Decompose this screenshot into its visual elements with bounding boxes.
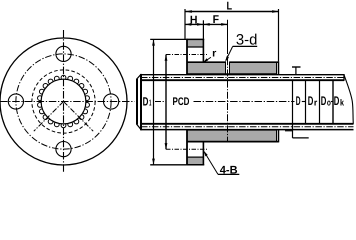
hidden sleeve bore circle (dashed) bbox=[32, 70, 95, 133]
bolt hole right bbox=[104, 94, 119, 109]
shaft end chamfer bottom bbox=[137, 124, 141, 129]
bolt hole top bbox=[56, 46, 71, 61]
oil hole right edge bbox=[229, 62, 231, 75]
gray section right border bottom bbox=[276, 130, 278, 142]
bottom ball track centerline bbox=[141, 126, 354, 128]
F arrow right bbox=[221, 23, 227, 26]
centerline dash between Do and Dk bbox=[331, 101, 333, 103]
top ball track centerline bbox=[141, 77, 344, 79]
sleeve outer bottom edge bbox=[187, 141, 279, 143]
dimension L line bbox=[186, 11, 279, 13]
svg-text:D: D bbox=[308, 94, 314, 108]
gray section right border top bbox=[276, 62, 278, 74]
dimension D1 vertical line bbox=[153, 39, 155, 164]
H arrow right bbox=[197, 23, 203, 26]
horizontal centerline front view bbox=[0, 101, 135, 103]
centerline dash between D and Dr bbox=[302, 101, 305, 103]
bolt hole PCD circle (dash-dot) bbox=[16, 54, 111, 149]
PCD arrow top bbox=[165, 55, 168, 61]
svg-text:D: D bbox=[334, 94, 340, 108]
dimension PCD vertical line bbox=[165, 55, 167, 150]
bolt hole left bbox=[8, 94, 23, 109]
svg-text:D: D bbox=[321, 94, 327, 108]
sleeve inner bottom edge line bbox=[187, 129, 277, 131]
L arrow left bbox=[186, 10, 192, 13]
spoke down-right (dash-dot) bbox=[64, 102, 94, 132]
r leader line bbox=[204, 57, 211, 62]
dimension L left extension bbox=[184, 9, 186, 39]
H arrow left bbox=[185, 23, 191, 26]
flange left face lower bbox=[186, 130, 188, 166]
flange bottom hole centerline bbox=[166, 148, 208, 150]
retainer ring circle bbox=[41, 79, 86, 124]
svg-text:r: r bbox=[314, 98, 318, 108]
D1 bottom extension bbox=[150, 164, 186, 166]
oil hole axis upper segment (F extension) bbox=[227, 20, 229, 47]
PCD arrow bottom bbox=[165, 143, 168, 149]
dimension H-F line bbox=[185, 23, 228, 25]
bottom ball track outer line bbox=[140, 129, 353, 131]
sleeve outer top edge left of oil hole bbox=[187, 61, 226, 63]
svg-text:D: D bbox=[296, 94, 301, 108]
3-d leader arrowhead bbox=[225, 56, 229, 62]
main centerline segment between D1 and PCD dimension lines bbox=[155, 101, 166, 103]
sleeve top wall gray section bbox=[187, 63, 277, 74]
shaft left end face outer line bbox=[136, 79, 138, 125]
D top extension stem bbox=[295, 67, 297, 75]
flange right face lower bbox=[202, 142, 204, 166]
sleeve bottom wall gray section bbox=[187, 131, 277, 141]
flange top edge bbox=[186, 38, 204, 40]
oil hole white gap in top wall bbox=[226, 61, 229, 73]
bottom ball track inner line bbox=[140, 123, 353, 125]
svg-text:PCD: PCD bbox=[173, 96, 190, 108]
spoke down-left (dash-dot) bbox=[34, 102, 64, 132]
4-B leader line bbox=[204, 152, 218, 175]
svg-text:1: 1 bbox=[149, 98, 152, 108]
svg-text:F: F bbox=[213, 14, 219, 26]
sleeve inner top edge line bbox=[187, 73, 277, 75]
3-d leader line bbox=[226, 46, 233, 60]
D1 arrow bottom bbox=[152, 159, 155, 165]
vertical centerline front view bbox=[63, 30, 65, 172]
flange bottom edge bbox=[186, 164, 204, 166]
D top extension T-bar bbox=[292, 66, 301, 68]
flange top ring gray section bbox=[187, 40, 204, 47]
sleeve right end face bottom bbox=[278, 130, 280, 143]
4-B underline bbox=[218, 173, 239, 175]
extension line for D bbox=[292, 80, 294, 138]
F arrow left bbox=[204, 23, 210, 26]
svg-text:H: H bbox=[190, 14, 198, 26]
4-B leader arrowhead bbox=[204, 151, 208, 157]
svg-text:r: r bbox=[212, 47, 216, 59]
retainer ball circles bbox=[38, 75, 90, 127]
Dr bottom extension bar bbox=[293, 137, 309, 139]
top ball track inner line bbox=[140, 79, 344, 81]
flange top hole centerline bbox=[166, 54, 208, 56]
svg-text:L: L bbox=[227, 1, 233, 13]
dimension L right extension bbox=[278, 9, 280, 61]
r leader arrowhead bbox=[203, 58, 208, 62]
extension line for Do bbox=[319, 80, 321, 124]
dimension H-F middle extension bbox=[202, 20, 204, 39]
shaft left end face inner line bbox=[140, 74, 142, 130]
D1 arrow top bbox=[152, 40, 155, 46]
svg-text:D: D bbox=[143, 94, 149, 108]
oil hole left edge bbox=[225, 62, 227, 75]
sleeve right end face top bbox=[278, 61, 280, 74]
top ball track right end stub bbox=[343, 74, 345, 81]
D bottom extension bar bbox=[285, 130, 293, 132]
flange outer circle bbox=[0, 38, 127, 165]
main centerline middle segment bbox=[194, 101, 295, 103]
shaft end chamfer top bbox=[137, 75, 141, 79]
svg-text:o: o bbox=[327, 98, 331, 108]
flange left face upper bbox=[186, 39, 188, 75]
extension line for Dk bbox=[332, 80, 334, 124]
sleeve outer top edge right of oil hole bbox=[230, 61, 279, 63]
D1 top extension bbox=[150, 38, 186, 40]
shaft break line right end bbox=[344, 75, 353, 124]
flange bottom hole upper edge line bbox=[187, 156, 204, 158]
L arrow right bbox=[272, 10, 278, 13]
bolt hole bottom bbox=[56, 142, 71, 157]
flange right face upper bbox=[202, 39, 204, 62]
flange bottom ring gray section bbox=[187, 158, 204, 165]
oil hole axis line bbox=[227, 47, 229, 141]
extension line for Dr bbox=[305, 80, 307, 124]
top ball track outer line bbox=[140, 74, 344, 76]
flange top hole lower edge line bbox=[187, 46, 204, 48]
3-d underline bbox=[233, 45, 258, 47]
